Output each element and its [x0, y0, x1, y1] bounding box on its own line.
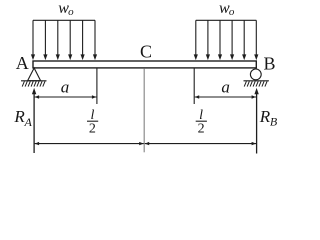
svg-text:o: o [229, 6, 235, 18]
load arrow [56, 20, 60, 60]
svg-text:2: 2 [198, 122, 205, 137]
label w_o left [58, 0, 74, 18]
load arrow [242, 20, 246, 60]
load arrow [230, 20, 234, 60]
dimension a right [195, 95, 256, 98]
svg-text:A: A [24, 115, 33, 129]
load arrow [218, 20, 222, 60]
load arrow [31, 20, 35, 60]
distributed load w1 top line [33, 19, 95, 21]
load arrow [206, 20, 210, 60]
label w_o right [219, 0, 235, 18]
svg-text:2: 2 [89, 122, 96, 137]
load arrow [93, 20, 97, 60]
dimension l/2 left [35, 142, 144, 145]
dimension a left [35, 95, 97, 98]
svg-text:o: o [68, 6, 74, 18]
svg-text:B: B [263, 53, 275, 73]
beam [33, 61, 256, 68]
load arrow [43, 20, 47, 60]
label l/2 left [87, 108, 98, 137]
svg-text:A: A [16, 53, 29, 73]
load arrow [194, 20, 198, 60]
svg-text:R: R [259, 107, 271, 126]
roller support B [244, 69, 269, 87]
svg-text:B: B [270, 114, 278, 128]
label R_B [259, 107, 278, 129]
label l/2 right [196, 108, 207, 137]
reaction arrow R_B [254, 88, 258, 154]
load arrow [68, 20, 72, 60]
pin support A [21, 68, 47, 87]
distributed load w2 top line [196, 19, 256, 21]
dimension l/2 right [145, 142, 256, 145]
svg-text:a: a [61, 78, 70, 97]
label R_A [13, 107, 32, 129]
extension line left (end of load a) [96, 68, 98, 104]
reaction arrow R_A [32, 88, 36, 153]
centre line at C [143, 68, 145, 152]
load arrow [254, 20, 258, 60]
load arrow [81, 20, 85, 60]
extension line right (start of load a) [193, 68, 195, 104]
svg-text:a: a [221, 78, 230, 97]
svg-text:C: C [140, 42, 152, 62]
